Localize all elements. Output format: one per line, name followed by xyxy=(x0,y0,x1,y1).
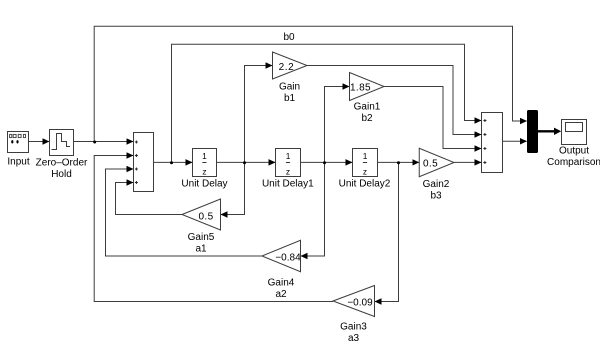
svg-text:Hold: Hold xyxy=(51,169,72,180)
svg-text:a2: a2 xyxy=(275,289,287,300)
svg-text:Comparison: Comparison xyxy=(547,157,600,168)
svg-text:z: z xyxy=(363,167,367,177)
svg-text:Output: Output xyxy=(559,145,589,156)
svg-text:−0.84: −0.84 xyxy=(275,252,301,263)
svg-text:z: z xyxy=(286,167,290,177)
svg-text:Unit Delay2: Unit Delay2 xyxy=(339,178,391,189)
svg-text:Gain5: Gain5 xyxy=(188,232,215,243)
svg-text:1.85: 1.85 xyxy=(350,82,371,93)
svg-text:0.5: 0.5 xyxy=(423,158,438,169)
svg-text:Input: Input xyxy=(7,157,29,168)
svg-text:Gain1: Gain1 xyxy=(354,102,381,113)
svg-text:b0: b0 xyxy=(283,32,295,43)
svg-text:Gain2: Gain2 xyxy=(423,179,450,190)
svg-text:2.2: 2.2 xyxy=(279,62,295,73)
svg-text:1: 1 xyxy=(363,151,368,161)
svg-text:Gain3: Gain3 xyxy=(340,322,367,333)
svg-text:Gain4: Gain4 xyxy=(268,278,295,289)
svg-text:b1: b1 xyxy=(284,93,296,104)
svg-text:1: 1 xyxy=(202,151,207,161)
svg-text:b3: b3 xyxy=(430,191,442,202)
svg-text:a1: a1 xyxy=(195,244,207,255)
svg-text:a3: a3 xyxy=(348,333,360,344)
svg-text:Unit Delay: Unit Delay xyxy=(181,178,227,189)
svg-text:Gain: Gain xyxy=(279,82,300,93)
svg-text:Unit Delay1: Unit Delay1 xyxy=(262,178,314,189)
svg-text:1: 1 xyxy=(286,151,291,161)
svg-text:−0.09: −0.09 xyxy=(347,298,373,309)
svg-text:z: z xyxy=(202,167,206,177)
svg-text:Zero–Order: Zero–Order xyxy=(36,158,88,169)
svg-text:b2: b2 xyxy=(361,113,373,124)
svg-text:0.5: 0.5 xyxy=(198,211,213,222)
